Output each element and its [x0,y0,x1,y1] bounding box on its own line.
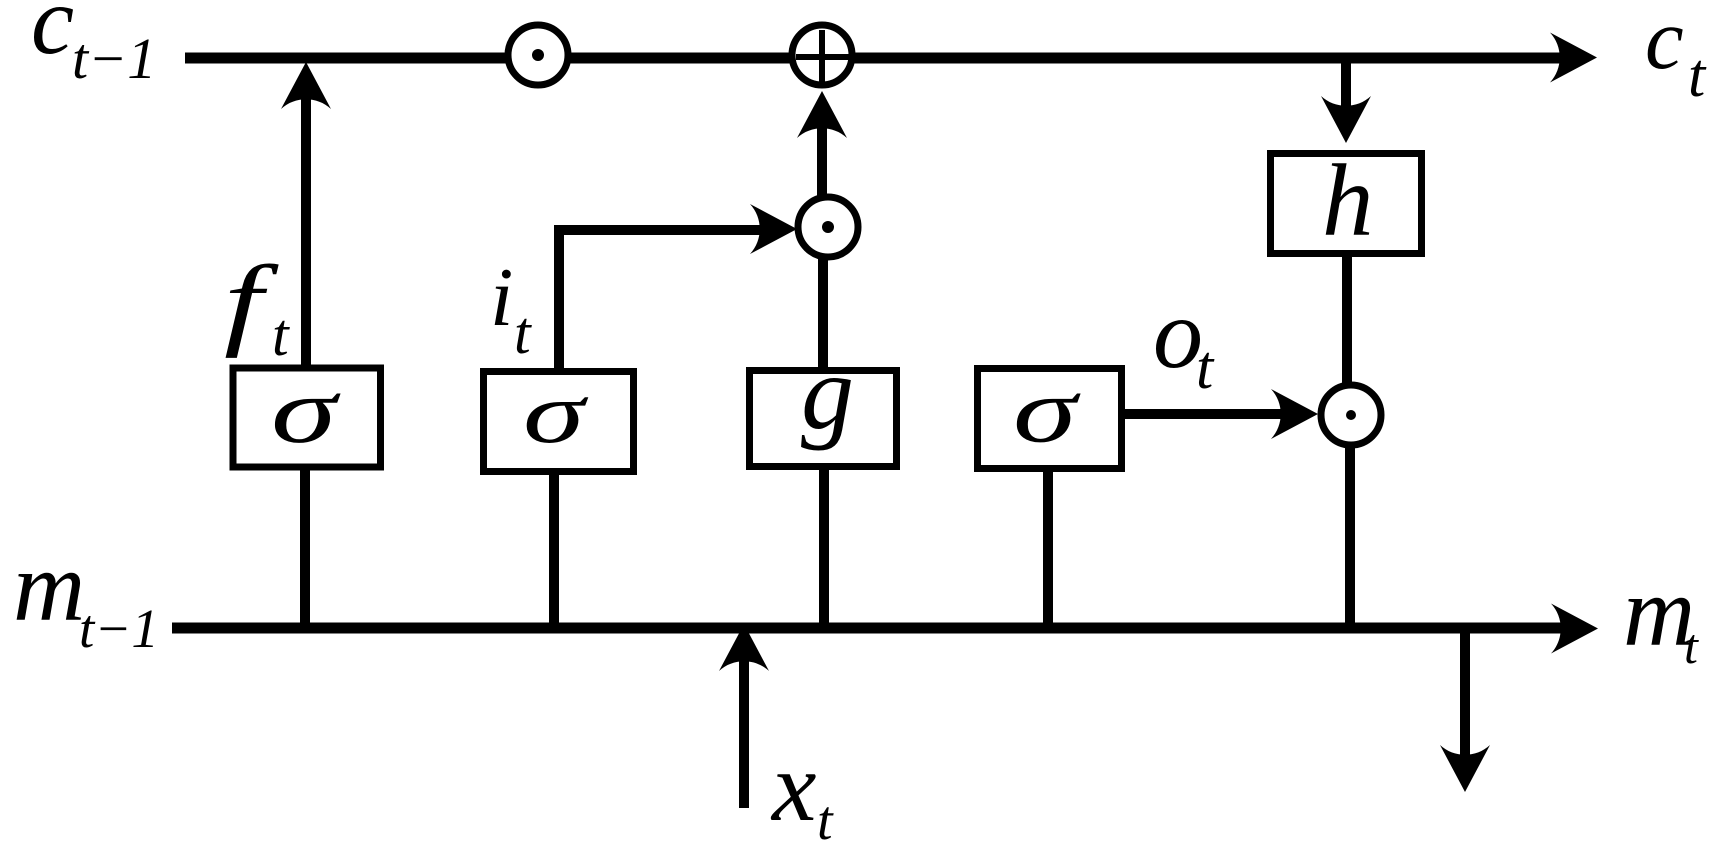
multiply node M3 (o*h) [1321,385,1381,445]
dot of multiply node M3 [1346,410,1356,420]
box sigma3 (output gate) [978,369,1122,469]
arrowhead o-gate right into multiply3 [1271,389,1318,439]
svg-text:t−1: t−1 [79,598,159,659]
arrowhead f-gate up [281,62,331,109]
box sigma2 (input gate) [484,372,634,472]
wire c-line (top memory line) [185,53,1580,64]
wire sigma3 lower stem [1043,470,1053,630]
wire f-gate up arrow stem [301,80,311,368]
wire c-line to h down arrow stem [1341,60,1351,110]
wire g lower stem [819,468,829,630]
svg-text:σ: σ [271,359,341,463]
svg-text:i: i [490,251,513,344]
wire i-gate bend to multiply node [559,230,770,370]
svg-text:h: h [1322,144,1374,258]
svg-text:x: x [770,731,816,842]
svg-text:m: m [13,531,85,642]
svg-text:g: g [801,334,854,451]
arrowhead m-line right [1551,604,1598,654]
svg-text:t−1: t−1 [72,26,156,91]
wire multiply2 to add node arrow stem [817,120,827,196]
wire x-input arrow stem [739,650,749,808]
wire o-gate arrow stem [1125,409,1290,419]
add node A1 on c-line [792,25,852,85]
svg-text:σ: σ [523,365,589,461]
wire sigma1 lower stem [300,468,310,630]
svg-text:σ: σ [1013,360,1081,463]
wire sigma2 lower stem [549,473,559,630]
svg-text:t: t [1196,334,1215,402]
dot of multiply node M2 [822,221,834,233]
box g (candidate) [750,371,897,467]
wire g upper stem [818,258,828,370]
arrowhead i-gate right into multiply2 [750,204,797,254]
wire m-line down branch stem [1460,628,1470,762]
svg-text:t: t [1688,42,1707,110]
svg-text:c: c [1645,0,1684,87]
svg-text:t: t [514,300,532,366]
svg-text:c: c [31,0,74,74]
svg-text:t: t [1684,618,1699,674]
arrowhead c-line right [1550,33,1597,83]
wire multiply3 lower stem [1345,446,1355,630]
wire m-line (bottom memory line) [172,623,1580,634]
box h (output activation) [1271,154,1422,254]
arrowhead x-input up [719,624,769,671]
dot of multiply node M1 [532,49,544,61]
wire h lower stem [1342,255,1352,386]
arrowhead down into h [1321,96,1371,143]
arrowhead m-line down branch [1440,745,1490,792]
box sigma1 (forget gate) [233,368,381,467]
cross of add node A1 [796,30,850,82]
arrowhead into add node up [797,91,847,138]
multiply node M2 (i*g) [798,197,858,257]
svg-text:t: t [817,790,834,852]
multiply node M1 on c-line [508,25,568,85]
